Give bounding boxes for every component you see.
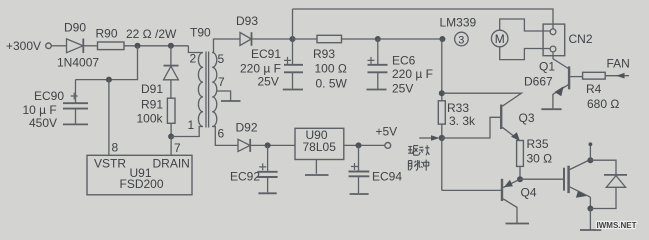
svg-text:VSTR: VSTR (94, 157, 126, 171)
svg-text:EC90: EC90 (34, 89, 64, 103)
svg-text:680 Ω: 680 Ω (587, 97, 619, 111)
capacitor EC92 (230, 145, 278, 192)
svg-text:22 Ω /2W: 22 Ω /2W (126, 27, 177, 41)
resistor R90 22ohm/2W (96, 27, 177, 50)
svg-text:25V: 25V (392, 82, 413, 96)
svg-text:25V: 25V (258, 75, 279, 89)
svg-text:6: 6 (218, 127, 225, 141)
diode D90 1N4007 (57, 21, 99, 70)
wire U90 to +5V (344, 144, 385, 146)
node gate drive (517, 176, 523, 182)
svg-text:5: 5 (218, 52, 225, 66)
resistor R35 30ohm (517, 137, 553, 179)
terminal +5V (376, 124, 398, 148)
wire collector stub (589, 144, 591, 161)
wire drive node to Q4 base (441, 138, 443, 190)
node B (375, 36, 381, 42)
svg-text:FSD200: FSD200 (120, 177, 164, 191)
label drive pulse (qu dong) (408, 145, 429, 155)
wire D92 to U90 (250, 144, 295, 146)
node EC94 (356, 142, 362, 148)
wire T90 pin7 tap (216, 91, 230, 101)
LM339 output pin 3 (440, 16, 477, 47)
wire top rail (293, 9, 554, 29)
svg-text:EC94: EC94 (372, 169, 402, 183)
diode D91 (141, 46, 179, 98)
svg-text:220 µ F: 220 µ F (240, 62, 281, 76)
freewheel diode (590, 160, 627, 208)
svg-text:T90: T90 (190, 26, 211, 40)
wire VSTR drop (108, 80, 110, 156)
svg-text:M: M (495, 32, 505, 46)
node D91 branch (168, 43, 174, 49)
connector CN2 (543, 24, 593, 56)
node EC90/VSTR junction (106, 77, 112, 83)
wire node A to R93 (293, 38, 318, 40)
terminal +300V (6, 39, 51, 53)
svg-text:7: 7 (218, 75, 225, 89)
svg-text:30 Ω: 30 Ω (527, 152, 553, 166)
FAN input (605, 56, 630, 78)
svg-text:100 Ω: 100 Ω (315, 62, 347, 76)
transistor Q3 (442, 93, 535, 141)
svg-text:D93: D93 (236, 14, 258, 28)
wire R33 top lead (441, 39, 443, 101)
svg-text:R93: R93 (313, 47, 335, 61)
svg-text:7: 7 (174, 141, 181, 155)
svg-text:450V: 450V (29, 116, 57, 130)
svg-text:0. 5W: 0. 5W (316, 77, 348, 91)
wire gate node to IGBT (520, 178, 563, 180)
transformer T90 (188, 26, 226, 141)
ground EC91 (283, 89, 303, 91)
IC U90 78L05 (295, 128, 344, 159)
svg-text:78L05: 78L05 (303, 140, 337, 154)
svg-text:EC6: EC6 (392, 53, 416, 67)
node Q3 collector join (439, 90, 445, 96)
wire riser to EC90/VSTR row (76, 46, 138, 80)
svg-text:+300V: +300V (6, 39, 41, 53)
ground EC90 (63, 123, 88, 125)
wire motor to CN2 bottom (500, 47, 550, 60)
IC U91 FSD200 (87, 140, 192, 194)
wire T90 pin5 to D93 (212, 39, 240, 53)
wire top rail riser (292, 9, 294, 39)
node EC92 (265, 142, 271, 148)
wire R93 to node B (342, 38, 378, 40)
svg-text:LM339: LM339 (440, 16, 477, 30)
svg-text:3: 3 (458, 34, 464, 46)
svg-text:Q4: Q4 (521, 186, 537, 200)
diode D93 (236, 14, 258, 46)
node R33 top (439, 36, 445, 42)
svg-text:10 µ F: 10 µ F (23, 103, 57, 117)
resistor R33 3.3k (438, 101, 476, 138)
svg-text:+5V: +5V (376, 124, 398, 138)
capacitor EC6 220uF 25V (368, 39, 433, 96)
svg-text:R90: R90 (96, 27, 118, 41)
svg-text:1: 1 (188, 118, 195, 132)
wire terminal to D90 (51, 45, 66, 47)
wire emitter to ground (589, 209, 591, 230)
node at R90 output (135, 43, 141, 49)
wire node B to node C (378, 38, 445, 40)
node DRAIN junction (168, 134, 174, 140)
transistor Q1 D667 (524, 52, 583, 109)
ground EC6 (367, 89, 387, 91)
ground IGBT (580, 229, 601, 231)
ground T90 pin7 (221, 100, 241, 102)
diode D92 (236, 121, 258, 152)
node IGBT collector (587, 157, 593, 163)
svg-text:100k: 100k (137, 112, 164, 126)
svg-text:D90: D90 (64, 21, 86, 35)
svg-text:Q3: Q3 (519, 111, 535, 125)
label drive pulse (mai chong) (408, 160, 428, 171)
wire DRAIN drop pin7 (170, 137, 172, 156)
ground Q4 (506, 223, 530, 225)
ground Q1 (541, 108, 561, 110)
svg-text:D667: D667 (524, 75, 553, 89)
svg-text:D92: D92 (236, 121, 258, 135)
resistor R91 100k (137, 98, 176, 137)
transistor Q4 (442, 179, 537, 223)
svg-text:D91: D91 (141, 82, 163, 96)
svg-text:DRAIN: DRAIN (153, 157, 190, 171)
wire T90 pin6 to D92 (212, 127, 238, 146)
node A (290, 36, 296, 42)
ground U90 (305, 174, 329, 176)
ground EC92 (258, 192, 276, 194)
svg-text:FAN: FAN (607, 56, 630, 70)
wire motor to CN2 top (500, 19, 550, 31)
resistor R4 680ohm (583, 72, 620, 111)
svg-text:3. 3k: 3. 3k (449, 114, 476, 128)
svg-text:CN2: CN2 (569, 32, 593, 46)
svg-text:1N4007: 1N4007 (57, 56, 99, 70)
wire D93 to node A (252, 38, 293, 40)
svg-text:EC92: EC92 (230, 170, 260, 184)
svg-text:R35: R35 (527, 137, 549, 151)
capacitor EC90 10uF 450V (23, 80, 89, 130)
capacitor EC91 220uF 25V (240, 39, 303, 89)
svg-text:8: 8 (112, 140, 119, 154)
wire U90 ground lead (315, 160, 317, 174)
resistor R93 100ohm 0.5W (313, 35, 348, 90)
IGBT output transistor (564, 160, 590, 209)
node IGBT emitter (587, 206, 593, 212)
node drive input (439, 135, 445, 141)
ground EC94 (350, 193, 369, 195)
svg-text:IWMS.NET: IWMS.NET (597, 221, 637, 230)
node stub top (589, 142, 593, 146)
wire D90 to R90 (83, 45, 97, 47)
svg-text:R4: R4 (586, 82, 602, 96)
drive pulse input arrow (419, 135, 439, 141)
wire R90 to T90 pin2 (124, 45, 188, 47)
svg-text:Q1: Q1 (539, 60, 555, 74)
svg-text:EC91: EC91 (251, 47, 281, 61)
capacitor EC94 (349, 145, 403, 193)
motor M (491, 30, 508, 47)
svg-text:220 µ F: 220 µ F (392, 67, 433, 81)
wire node to T90 pin1 (171, 127, 203, 137)
svg-text:R91: R91 (141, 98, 163, 112)
svg-text:2: 2 (190, 52, 197, 66)
